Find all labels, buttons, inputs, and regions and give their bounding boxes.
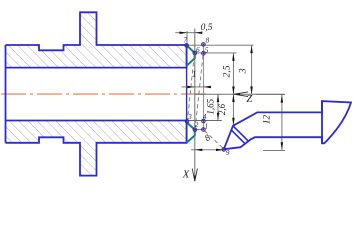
svg-text:3: 3 <box>238 68 249 74</box>
dim 3 line <box>251 45 253 94</box>
svg-text:2: 2 <box>195 121 199 129</box>
svg-text:1: 1 <box>205 122 209 130</box>
dim 12 line <box>281 94 283 150</box>
svg-text:8: 8 <box>206 37 210 45</box>
dim 0,5 extension left <box>186 31 188 44</box>
svg-text:3: 3 <box>187 113 192 121</box>
svg-text:6: 6 <box>196 46 200 54</box>
svg-text:7: 7 <box>183 37 187 45</box>
workpiece left face <box>5 45 7 143</box>
toolpath point 5 <box>202 51 206 55</box>
svg-text:X: X <box>182 169 191 181</box>
dim 12 ext bottom <box>263 149 285 151</box>
dim 1,65 line <box>217 94 219 120</box>
svg-text:0,5: 0,5 <box>201 23 213 33</box>
dim 1 line <box>182 86 211 88</box>
toolpath point 6 <box>193 51 197 55</box>
toolpath point 1 <box>202 128 206 132</box>
segment dot2-dot1 <box>195 129 204 131</box>
workpiece hatching bottom band <box>6 121 187 176</box>
dashed path 5-2 <box>195 56 203 128</box>
extension line bore bottom <box>187 120 222 122</box>
toolpath point 7 <box>185 44 189 48</box>
dim 8 line <box>191 149 224 151</box>
workpiece hatching top band <box>6 12 187 67</box>
svg-text:9: 9 <box>226 149 230 157</box>
machined chamfer contour bottom <box>187 122 195 142</box>
machined chamfer contour top <box>187 45 195 66</box>
dashed path 6-3 <box>188 56 195 119</box>
centerline <box>1 93 207 95</box>
toolpath point 9 <box>222 148 226 152</box>
dim 12 ext top <box>256 93 285 95</box>
workpiece outline <box>6 12 187 67</box>
dim 0,5 line <box>175 32 201 34</box>
svg-text:2,6: 2,6 <box>217 103 227 115</box>
vertical through points 8-5-4-1 <box>203 44 205 129</box>
tool outline <box>224 101 351 149</box>
svg-text:12: 12 <box>263 115 273 125</box>
dim 2,6 line <box>232 94 234 125</box>
tool flag left edge <box>321 101 323 143</box>
svg-text:Z: Z <box>246 94 252 105</box>
extension line chamfer land top <box>195 52 236 54</box>
dashed path 1-9 <box>204 131 222 148</box>
toolpath point 3 <box>185 120 189 124</box>
toolpath point 8 <box>202 43 206 47</box>
X axis line <box>194 29 196 182</box>
extension line OD top <box>187 44 253 46</box>
Z axis line <box>195 93 285 95</box>
svg-text:5: 5 <box>205 47 209 55</box>
X axis arrowhead <box>192 169 197 182</box>
svg-text:1,65: 1,65 <box>205 98 215 114</box>
toolpath point 4 <box>202 119 206 123</box>
tool insert clamp line 1 <box>233 126 248 141</box>
tool insert clamp line 2 <box>231 130 245 144</box>
svg-text:4: 4 <box>203 113 207 121</box>
toolpath point 2 <box>193 128 197 132</box>
dim 2,5 line <box>232 53 234 94</box>
svg-text:2,5: 2,5 <box>222 65 233 77</box>
workpiece right face <box>186 45 188 143</box>
Z axis arrowhead <box>234 92 248 97</box>
